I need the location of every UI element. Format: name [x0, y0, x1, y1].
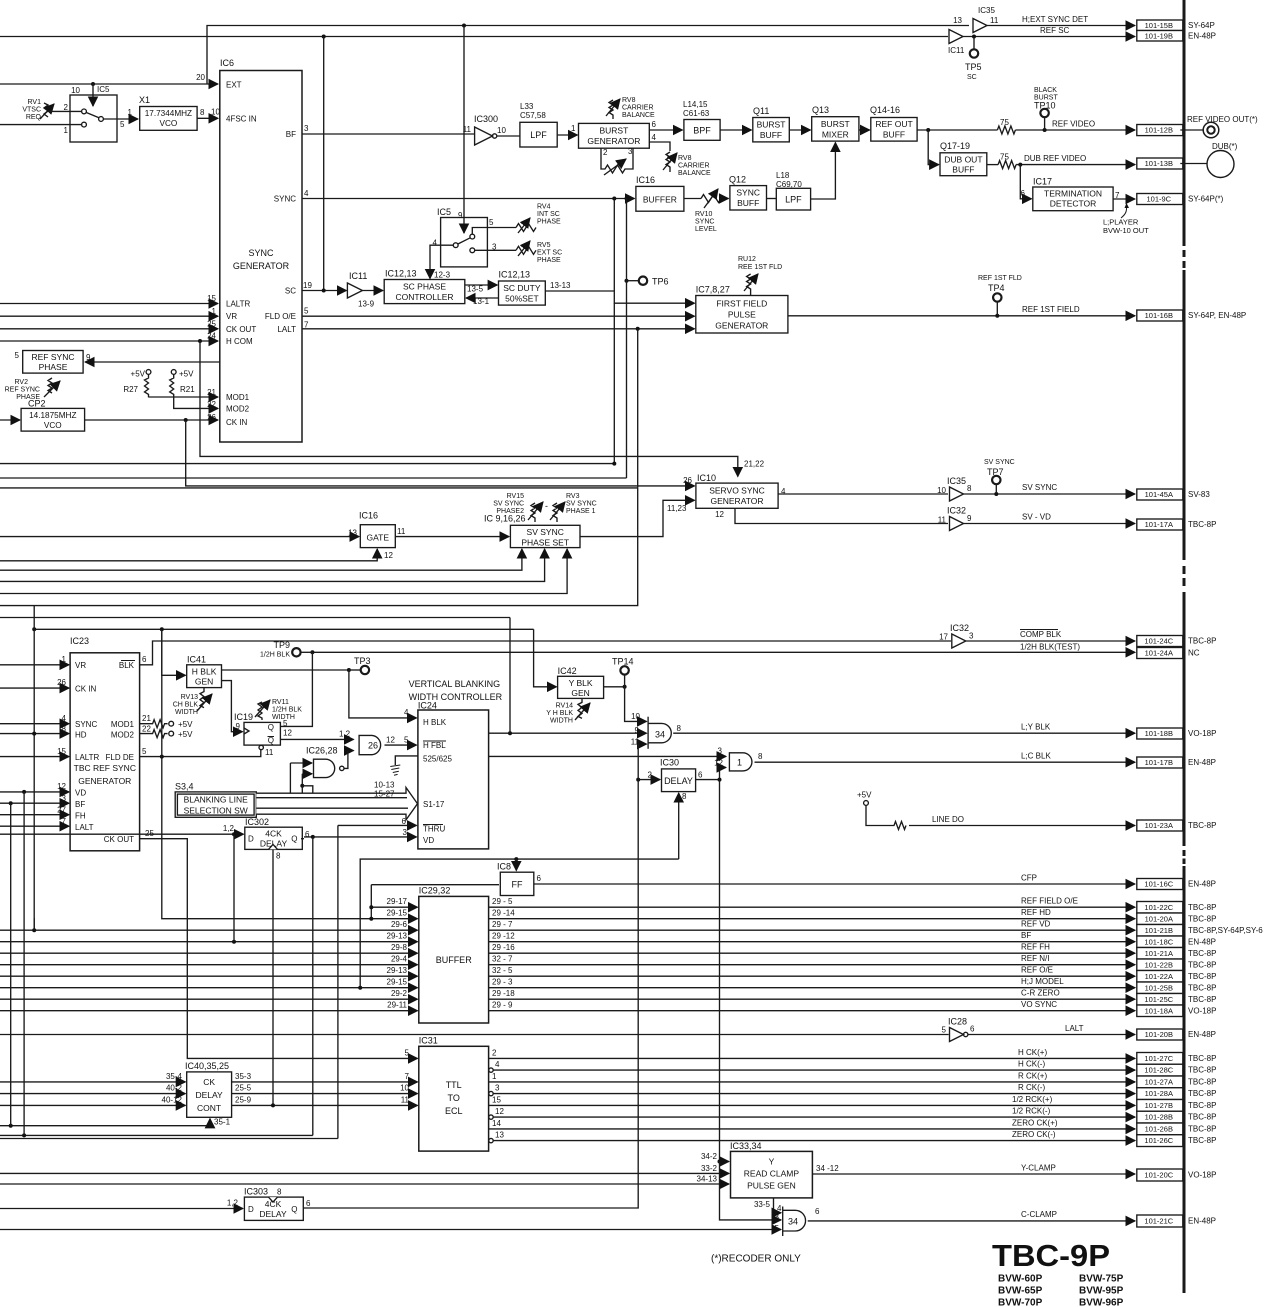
svg-text:REE 1ST FLD: REE 1ST FLD — [738, 264, 782, 271]
wire IC31 out 14 / ZERO CK(+) — [489, 1128, 1135, 1130]
wire buffer in 29-13 — [0, 941, 418, 943]
wire buffer out 29-18 — [489, 998, 1135, 1000]
svg-text:RV4: RV4 — [537, 204, 551, 211]
svg-text:101-27C: 101-27C — [1144, 1054, 1173, 1063]
svg-text:R21: R21 — [180, 385, 195, 394]
svg-text:H CK(+): H CK(+) — [1018, 1048, 1047, 1057]
svg-text:EN-48P: EN-48P — [1188, 31, 1216, 40]
test point TP4 — [996, 302, 998, 316]
connector 101-19B — [1137, 31, 1183, 42]
svg-text:4CK: 4CK — [265, 829, 282, 839]
svg-text:TBC-8P: TBC-8P — [1188, 1066, 1216, 1075]
svg-text:GENERATOR: GENERATOR — [587, 136, 640, 146]
svg-text:REF SC: REF SC — [1040, 26, 1070, 35]
svg-text:C57,58: C57,58 — [520, 111, 546, 120]
svg-text:6: 6 — [970, 1025, 975, 1034]
wire buffer out 29-9 — [489, 1010, 1135, 1012]
svg-text:TP3: TP3 — [354, 656, 371, 666]
svg-text:11: 11 — [401, 1095, 410, 1104]
svg-text:BUFF: BUFF — [883, 130, 905, 140]
wire ref video out — [917, 129, 997, 131]
svg-text:SC: SC — [285, 287, 296, 296]
svg-text:SYNC: SYNC — [75, 720, 97, 729]
svg-text:TBC-8P: TBC-8P — [1188, 983, 1216, 992]
svg-text:101-12B: 101-12B — [1145, 126, 1173, 135]
wire to termination detector — [1020, 165, 1031, 199]
svg-text:6: 6 — [305, 830, 310, 839]
svg-text:101-21A: 101-21A — [1145, 949, 1173, 958]
wire THRU input — [338, 824, 417, 826]
variable resistor RV8 carrier balance (bottom) — [666, 152, 670, 172]
svg-text:101-28B: 101-28B — [1145, 1113, 1173, 1122]
wire IC31 out 1 / R CK(+) — [489, 1081, 1135, 1083]
svg-text:TP7: TP7 — [987, 467, 1004, 477]
connector 101-18A — [1137, 1005, 1183, 1017]
wire buffer out 32-5 — [489, 975, 1135, 977]
svg-text:IC5: IC5 — [437, 207, 451, 217]
svg-text:EXT: EXT — [226, 81, 242, 90]
svg-text:L14,15: L14,15 — [683, 100, 708, 109]
svg-text:HD: HD — [75, 730, 87, 739]
wire 13-13 to first field gen — [545, 291, 694, 303]
svg-text:2: 2 — [603, 148, 608, 157]
svg-text:VO-18P: VO-18P — [1188, 729, 1216, 738]
svg-text:20: 20 — [196, 73, 205, 82]
svg-text:101-16C: 101-16C — [1144, 880, 1173, 889]
svg-text:10: 10 — [71, 86, 80, 95]
svg-text:33-2: 33-2 — [701, 1164, 718, 1173]
svg-text:IC6: IC6 — [220, 58, 234, 68]
svg-text:1: 1 — [212, 307, 217, 316]
svg-text:Q11: Q11 — [753, 106, 769, 116]
svg-text:4: 4 — [652, 133, 657, 142]
svg-text:Q: Q — [268, 736, 274, 745]
svg-text:L;C BLK: L;C BLK — [1021, 752, 1051, 761]
wire H BLK GEN input — [162, 629, 186, 675]
svg-text:GEN: GEN — [571, 688, 589, 698]
svg-text:REF OUT: REF OUT — [875, 119, 912, 129]
wire LALT into IC28 — [0, 1034, 949, 1036]
connector 101-21B — [1137, 925, 1183, 937]
svg-text:101-20C: 101-20C — [1144, 1171, 1173, 1180]
wire servo pin12 to IC32 — [735, 508, 948, 523]
svg-text:12: 12 — [714, 759, 723, 768]
svg-text:14.1875MHZ: 14.1875MHZ — [29, 411, 76, 420]
svg-text:D: D — [248, 1205, 254, 1214]
svg-text:12: 12 — [283, 729, 292, 738]
svg-text:Q: Q — [291, 1205, 297, 1214]
wire into gate1 pin3 — [489, 755, 726, 757]
svg-text:TP5: TP5 — [965, 62, 982, 72]
svg-text:BVW-95P: BVW-95P — [1079, 1286, 1124, 1297]
buffer IC28 — [950, 1028, 964, 1042]
svg-text:101-22B: 101-22B — [1145, 960, 1173, 969]
svg-text:5: 5 — [405, 1048, 410, 1057]
svg-text:5: 5 — [942, 1026, 947, 1035]
svg-text:13-5: 13-5 — [467, 285, 484, 294]
node junction on top wire — [462, 24, 466, 28]
svg-text:101-13B: 101-13B — [1145, 159, 1173, 168]
svg-text:REF FH: REF FH — [1021, 943, 1050, 952]
svg-text:1/2H BLK(TEST): 1/2H BLK(TEST) — [1020, 643, 1080, 652]
svg-text:29 -18: 29 -18 — [492, 989, 515, 998]
svg-text:25-9: 25-9 — [235, 1095, 252, 1104]
wire REF 1ST FIELD out — [788, 315, 1135, 317]
wire into switch contact 1 — [0, 124, 82, 126]
wire IC24 out to gate34 pin9 — [489, 732, 647, 734]
svg-text:MOD2: MOD2 — [226, 405, 250, 414]
svg-text:11,23: 11,23 — [667, 504, 687, 513]
svg-text:7: 7 — [405, 1072, 410, 1081]
variable resistor RV4 int sc phase — [516, 224, 536, 232]
svg-text:CONTROLLER: CONTROLLER — [395, 292, 453, 302]
svg-text:21,22: 21,22 — [744, 460, 765, 469]
svg-text:Q12: Q12 — [729, 175, 746, 185]
svg-text:29-13: 29-13 — [387, 966, 408, 975]
svg-text:LALTR: LALTR — [226, 300, 251, 309]
switch IC5 — [70, 95, 117, 142]
SECTION:RIGHTBUS — [1137, 0, 1263, 1293]
svg-text:BVW-10 OUT: BVW-10 OUT — [1103, 226, 1149, 235]
wire BF in — [0, 802, 69, 804]
svg-text:SC PHASE: SC PHASE — [403, 282, 446, 292]
wire gate input5 — [0, 1229, 781, 1231]
svg-text:101-22C: 101-22C — [1144, 903, 1173, 912]
svg-text:13: 13 — [495, 1131, 504, 1140]
svg-text:REF SYNC: REF SYNC — [32, 352, 75, 362]
svg-text:5: 5 — [404, 736, 409, 745]
SECTION:MID — [0, 606, 1135, 1208]
svg-text:5: 5 — [775, 1224, 780, 1233]
svg-text:13-13: 13-13 — [550, 281, 571, 290]
svg-text:IC16: IC16 — [359, 511, 378, 521]
svg-text:32 - 7: 32 - 7 — [492, 955, 513, 964]
wire 13-5 — [465, 284, 498, 286]
test point TP10 black burst — [1044, 118, 1046, 131]
svg-text:IC17: IC17 — [1033, 177, 1052, 187]
svg-text:12: 12 — [384, 551, 393, 560]
svg-text:75: 75 — [1000, 118, 1009, 127]
svg-text:IC11: IC11 — [349, 271, 367, 281]
svg-text:1: 1 — [737, 758, 742, 768]
svg-text:15: 15 — [492, 1095, 501, 1104]
svg-text:THRU: THRU — [423, 825, 445, 834]
svg-text:35-1: 35-1 — [214, 1118, 231, 1127]
svg-text:TP9: TP9 — [273, 640, 290, 650]
svg-text:1: 1 — [492, 1072, 497, 1081]
svg-text:BUFFER: BUFFER — [436, 955, 473, 965]
node TP5 junction — [972, 35, 976, 39]
svg-text:4: 4 — [62, 714, 67, 723]
connector 101-20B — [1137, 1029, 1183, 1040]
svg-text:50%SET: 50%SET — [505, 294, 539, 304]
svg-text:+5V: +5V — [857, 791, 872, 800]
svg-text:40-2: 40-2 — [166, 1084, 183, 1093]
svg-text:ECL: ECL — [445, 1106, 463, 1116]
wire vertical left riser — [33, 606, 35, 932]
wire gate1 pin12 from IC30 out — [720, 768, 727, 780]
wire FF input — [371, 884, 499, 886]
wire vertical from SYNC node to bus — [613, 199, 615, 292]
svg-text:IC12,13: IC12,13 — [385, 269, 417, 279]
connector 101-45A — [1137, 489, 1183, 500]
wire IC302 D input — [0, 833, 244, 835]
svg-text:10: 10 — [631, 712, 640, 721]
svg-text:TBC-8P: TBC-8P — [1188, 637, 1216, 646]
test point TP9 — [301, 651, 313, 653]
wire IC31 out 3 / R CK(-) — [489, 1091, 493, 1095]
svg-text:29-8: 29-8 — [391, 943, 408, 952]
svg-text:H CK(-): H CK(-) — [1018, 1060, 1045, 1069]
wire buffer out 29-5 — [489, 906, 1135, 908]
svg-text:C-R ZERO: C-R ZERO — [1021, 989, 1060, 998]
wire buffer out 29-14 — [489, 918, 1135, 920]
svg-text:CARRIER: CARRIER — [678, 163, 710, 170]
svg-text:L33: L33 — [520, 102, 534, 111]
wire to 101-9C — [1113, 198, 1135, 200]
svg-text:LPF: LPF — [785, 195, 802, 205]
wire buffer out 29-16 — [489, 952, 1135, 954]
svg-text:SV SYNC: SV SYNC — [527, 527, 564, 537]
svg-text:101-18C: 101-18C — [1144, 937, 1173, 946]
svg-text:IC 9,16,26: IC 9,16,26 — [484, 514, 526, 524]
connector 101-26B — [1137, 1123, 1183, 1135]
svg-text:11: 11 — [990, 16, 999, 25]
svg-text:5: 5 — [489, 218, 494, 227]
svg-text:DUB(*): DUB(*) — [1212, 142, 1238, 151]
svg-text:RV2: RV2 — [15, 379, 29, 386]
svg-text:101-20B: 101-20B — [1145, 1030, 1173, 1039]
node junction wire2 vertical — [322, 35, 326, 39]
wire gate26 out to H FBL — [385, 744, 417, 746]
wire switch pin4 down to sc phase controller — [430, 245, 453, 278]
svg-text:SY-64P, EN-48P: SY-64P, EN-48P — [1188, 311, 1246, 320]
wire to LPF — [497, 135, 520, 137]
svg-text:DELAY: DELAY — [259, 1209, 287, 1219]
svg-text:29 - 5: 29 - 5 — [492, 897, 513, 906]
svg-text:LPF: LPF — [530, 130, 547, 140]
svg-text:SV - VD: SV - VD — [1022, 513, 1051, 522]
wire VCO to 4FSC IN — [197, 117, 218, 119]
svg-text:CK IN: CK IN — [75, 685, 97, 694]
svg-text:Y-CLAMP: Y-CLAMP — [1021, 1164, 1056, 1173]
svg-text:BURST: BURST — [599, 126, 628, 136]
svg-text:101-27B: 101-27B — [1145, 1101, 1173, 1110]
svg-text:19: 19 — [303, 281, 312, 290]
wire VR — [0, 315, 218, 317]
burst generator — [579, 123, 650, 148]
svg-text:101-19B: 101-19B — [1145, 31, 1173, 40]
svg-text:1,2: 1,2 — [339, 730, 351, 739]
svg-text:29 - 9: 29 - 9 — [492, 1001, 513, 1010]
wire into gate pin13 — [0, 536, 359, 538]
svg-text:REF 1ST FIELD: REF 1ST FIELD — [1022, 305, 1080, 314]
wire gate to sv sync phase set — [395, 536, 509, 538]
svg-text:5: 5 — [15, 351, 20, 360]
svg-text:CP2: CP2 — [28, 399, 46, 409]
svg-text:+5V: +5V — [179, 370, 194, 379]
svg-text:IC32: IC32 — [947, 506, 966, 516]
svg-text:IC42: IC42 — [558, 666, 577, 676]
svg-text:101-23A: 101-23A — [1145, 821, 1173, 830]
svg-text:PHASE 1: PHASE 1 — [566, 508, 596, 515]
wire y blk gen out — [604, 686, 625, 688]
connector 101-23A — [1137, 820, 1183, 831]
svg-text:VTSC: VTSC — [22, 107, 41, 114]
svg-text:IC10: IC10 — [697, 473, 716, 483]
svg-text:3: 3 — [969, 632, 974, 641]
svg-text:101-26B: 101-26B — [1145, 1124, 1173, 1133]
svg-text:REF SYNC: REF SYNC — [5, 387, 40, 394]
connector 101-25C — [1137, 994, 1183, 1006]
svg-text:SELECTION SW: SELECTION SW — [184, 806, 248, 816]
svg-text:BLACK: BLACK — [1034, 87, 1057, 94]
wire IC302 clock net down — [272, 849, 274, 1104]
svg-text:BUFF: BUFF — [952, 165, 974, 175]
svg-text:TBC-8P: TBC-8P — [1188, 1124, 1216, 1133]
svg-text:WIDTH: WIDTH — [175, 709, 198, 716]
svg-text:40-12: 40-12 — [162, 1095, 183, 1104]
svg-text:22: 22 — [207, 400, 216, 409]
svg-text:34 -12: 34 -12 — [816, 1164, 839, 1173]
svg-text:TP14: TP14 — [612, 657, 634, 667]
svg-text:GEN: GEN — [195, 677, 213, 687]
svg-text:Q: Q — [268, 723, 274, 732]
svg-text:10: 10 — [937, 486, 946, 495]
wire 34-13 input — [0, 1183, 729, 1185]
wire IC31 out 15 / 1/2 RCK(+) — [489, 1104, 1135, 1106]
svg-text:101-17B: 101-17B — [1145, 758, 1173, 767]
wire from top net into switch — [463, 26, 465, 234]
svg-text:PHASE SET: PHASE SET — [521, 538, 569, 548]
svg-text:REF 1ST FLD: REF 1ST FLD — [978, 275, 1022, 282]
svg-text:8: 8 — [200, 108, 205, 117]
svg-text:RU12: RU12 — [738, 256, 756, 263]
svg-text:BVW-75P: BVW-75P — [1079, 1274, 1124, 1285]
wire 34-2 input — [718, 1160, 722, 1164]
svg-text:10: 10 — [211, 108, 220, 117]
svg-text:REF HD: REF HD — [1021, 908, 1051, 917]
svg-text:IC16: IC16 — [636, 175, 655, 185]
svg-text:14: 14 — [492, 1119, 501, 1128]
svg-text:REQ: REQ — [26, 114, 42, 121]
svg-text:REF O/E: REF O/E — [1021, 966, 1053, 975]
connector 101-28C — [1137, 1064, 1183, 1076]
svg-text:101-18B: 101-18B — [1145, 729, 1173, 738]
svg-text:CARRIER: CARRIER — [622, 105, 654, 112]
svg-text:Y: Y — [769, 1157, 775, 1167]
wire vertical LALT net down — [637, 329, 639, 488]
svg-text:SV SYNC: SV SYNC — [493, 501, 524, 508]
wire LALT to first field gen — [302, 328, 695, 330]
wire top net to IC35 — [207, 26, 969, 85]
svg-text:VD: VD — [423, 836, 434, 845]
svg-text:-: - — [545, 501, 548, 511]
svg-text:27: 27 — [57, 805, 66, 814]
wire vertical to SC net — [323, 37, 325, 291]
svg-text:29-4: 29-4 — [391, 955, 408, 964]
wire h blk gen to IC19 clock — [222, 681, 243, 732]
svg-text:IC300: IC300 — [474, 114, 498, 124]
wire 33-2 input — [0, 1172, 729, 1174]
wire vertical from SYNC node through TP6 — [626, 199, 628, 479]
svg-text:BUFF: BUFF — [760, 130, 782, 140]
svg-text:RV13: RV13 — [181, 694, 198, 701]
svg-text:BF: BF — [75, 800, 85, 809]
test point TP6 — [627, 280, 639, 282]
ground 525/625 — [395, 756, 418, 765]
svg-text:5: 5 — [304, 307, 309, 316]
svg-text:PULSE: PULSE — [728, 310, 756, 320]
svg-text:101-45A: 101-45A — [1145, 490, 1173, 499]
svg-text:34-2: 34-2 — [701, 1152, 718, 1161]
svg-text:525/625: 525/625 — [423, 755, 452, 764]
wire THRU net down — [337, 825, 339, 1138]
connector 101-16B — [1137, 310, 1183, 321]
connector 101-28A — [1137, 1088, 1183, 1100]
svg-text:TBC-8P,SY-64P,SY-6: TBC-8P,SY-64P,SY-6 — [1188, 926, 1263, 935]
connector 101-20A — [1137, 913, 1183, 925]
svg-text:101-24C: 101-24C — [1144, 637, 1173, 646]
svg-text:29-15: 29-15 — [387, 909, 408, 918]
buffer IC32 (sv-vd) — [950, 517, 964, 531]
svg-text:BLK: BLK — [119, 661, 135, 670]
wire VCO to CK IN — [85, 419, 218, 421]
svg-text:Y H BLK: Y H BLK — [546, 710, 573, 717]
svg-text:SC DUTY: SC DUTY — [503, 283, 541, 293]
wire pin4 to RV8 bottom — [649, 142, 670, 151]
wire ck delay 35-1 — [0, 1119, 210, 1126]
wire FH in — [0, 814, 69, 816]
wire FLD DE to IC19 pin11 — [140, 750, 261, 757]
svg-text:REF VIDEO OUT(*): REF VIDEO OUT(*) — [1187, 115, 1258, 124]
svg-text:SV-83: SV-83 — [1188, 490, 1210, 499]
svg-text:3: 3 — [304, 124, 309, 133]
svg-text:C61-63: C61-63 — [683, 109, 710, 118]
svg-text:TP4: TP4 — [988, 283, 1005, 293]
svg-text:1,2: 1,2 — [223, 824, 235, 833]
wire REF SC into IC11 — [0, 36, 948, 38]
svg-text:BUFF: BUFF — [737, 198, 759, 208]
svg-text:RV11: RV11 — [272, 699, 289, 706]
connector 101-22B — [1137, 959, 1183, 971]
wire dub ref video — [987, 164, 998, 166]
svg-text:TBC-8P: TBC-8P — [1188, 1077, 1216, 1086]
wire buffer in 29-4 — [0, 964, 418, 966]
svg-text:101-26C: 101-26C — [1144, 1136, 1173, 1145]
wire mid second to Y BLK GEN — [534, 629, 557, 687]
svg-text:IC8: IC8 — [497, 862, 511, 872]
svg-text:REF N/I: REF N/I — [1021, 954, 1049, 963]
wire buffer out 29-7 — [489, 929, 1135, 931]
test point TP5 — [973, 37, 975, 50]
svg-text:SYNC: SYNC — [274, 195, 296, 204]
wire phase set to servo 11,23 — [580, 500, 695, 536]
svg-text:INT SC: INT SC — [537, 211, 560, 218]
wire to ref out buff — [859, 129, 870, 131]
svg-text:11: 11 — [938, 516, 947, 525]
svg-text:L;Y BLK: L;Y BLK — [1021, 723, 1051, 732]
svg-text:H FBL: H FBL — [423, 741, 446, 750]
svg-text:SV SYNC: SV SYNC — [1022, 483, 1057, 492]
svg-text:TBC-8P: TBC-8P — [1188, 914, 1216, 923]
svg-text:EXT SC: EXT SC — [537, 250, 562, 257]
wire L;Y BLK — [673, 732, 1135, 734]
svg-text:8: 8 — [967, 484, 972, 493]
svg-text:VR: VR — [75, 661, 86, 670]
wire LPF up into burst mixer — [811, 143, 836, 200]
svg-text:3: 3 — [628, 147, 633, 156]
